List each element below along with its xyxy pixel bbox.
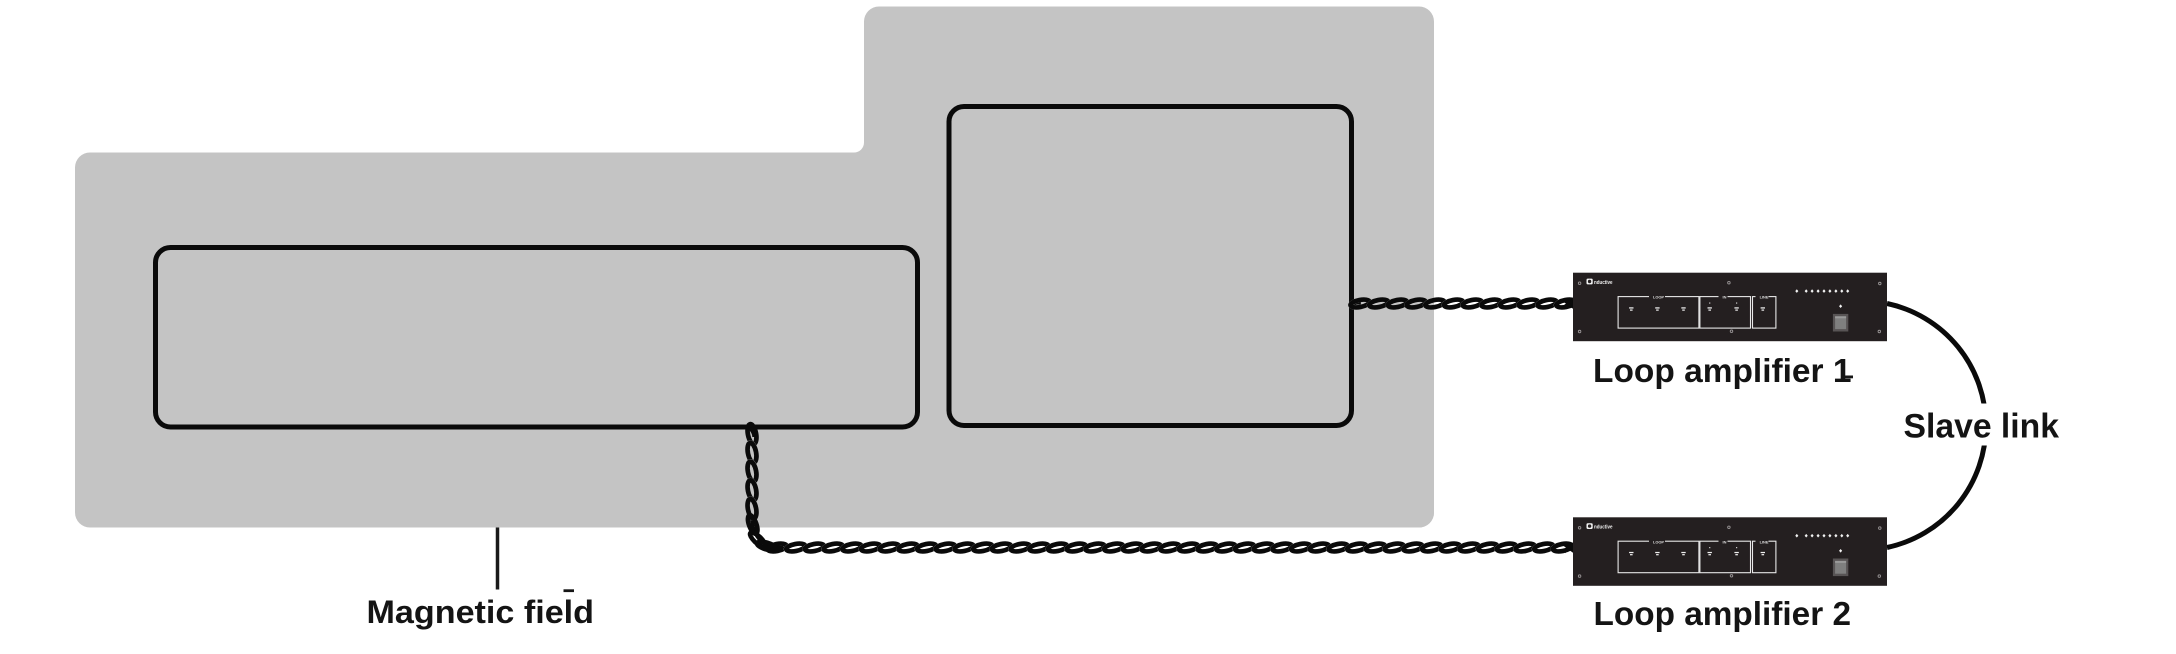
twisted pair elbow <box>746 514 760 535</box>
stray dash left of slave link <box>1844 376 1854 379</box>
svg-text:LINE: LINE <box>1760 295 1769 300</box>
svg-text:IN: IN <box>1723 539 1727 544</box>
svg-text:Slave link: Slave link <box>1904 408 2060 446</box>
amp1 brand logo <box>1587 279 1614 286</box>
amp1 terminal strip <box>1618 297 1776 329</box>
magnetic field area <box>75 7 1434 528</box>
magnetic field leader line <box>496 528 500 590</box>
svg-text:nductive: nductive <box>1594 525 1613 531</box>
amp1 indicator diamonds <box>1795 289 1849 308</box>
slave link cable <box>1887 304 1986 548</box>
amp1 power button <box>1833 314 1848 332</box>
svg-text:Magnetic field: Magnetic field <box>367 594 595 630</box>
svg-text:Loop amplifier 2: Loop amplifier 2 <box>1594 595 1852 632</box>
loop coil 1 (left) <box>156 248 918 428</box>
amp2 brand logo <box>1587 523 1614 530</box>
amp2 panel screws <box>1578 526 1881 577</box>
svg-text:nductive: nductive <box>1594 280 1613 286</box>
loop amplifier 2 body <box>1573 517 1887 586</box>
amp1 screw terminals <box>1629 303 1765 311</box>
amp1 section labels <box>1649 294 1769 299</box>
svg-text:LOOP: LOOP <box>1653 295 1664 300</box>
loop coil 2 (right) <box>949 107 1352 426</box>
svg-text:LOOP: LOOP <box>1653 539 1664 544</box>
svg-text:IN: IN <box>1723 295 1727 300</box>
svg-text:LINE: LINE <box>1760 539 1769 544</box>
twisted pair: loop 1 to amplifier 2 <box>746 423 1575 552</box>
amp2 screw terminals <box>1629 547 1765 555</box>
amp2 section labels <box>1649 539 1769 544</box>
white backing for slave link label <box>1896 404 2068 446</box>
stray dash above field label <box>564 589 575 592</box>
amp1 panel screws <box>1578 281 1881 332</box>
amp2 terminal strip <box>1618 541 1776 573</box>
amp2 power button <box>1833 559 1848 577</box>
svg-text:Loop amplifier 1: Loop amplifier 1 <box>1593 352 1852 389</box>
loop amplifier 1 body <box>1573 273 1887 342</box>
twisted pair: loop 2 to amplifier 1 <box>1350 298 1576 309</box>
amp2 indicator diamonds <box>1795 534 1849 553</box>
